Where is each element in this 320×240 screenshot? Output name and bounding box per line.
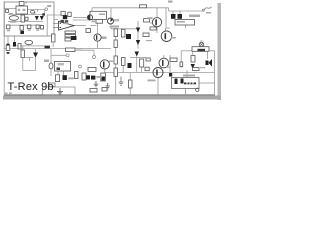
svg-text:T-Rex 9b: T-Rex 9b	[8, 81, 54, 93]
